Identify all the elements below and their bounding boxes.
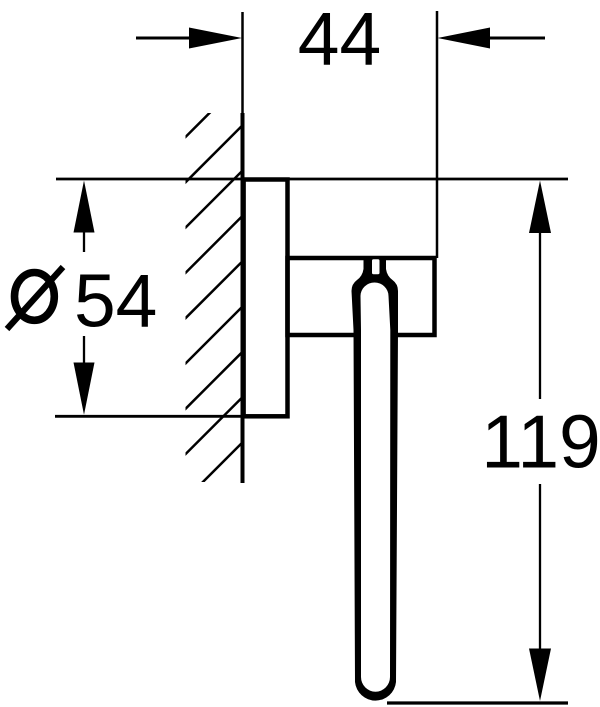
post slot (white gap in pivot) [372, 259, 380, 274]
dim 44 left leader line [136, 37, 195, 40]
dim 44 right arrowhead [438, 28, 491, 49]
ring and pivot post silhouette [352, 257, 399, 701]
dim 119 up arrowhead [529, 181, 551, 234]
dim 44 right leader line [484, 37, 545, 40]
dim 119 down arrowhead [529, 649, 551, 702]
wall hatching [161, 80, 243, 524]
dim 54 up arrowhead [74, 181, 95, 233]
wall surface line [241, 113, 245, 483]
ring inner opening [361, 283, 391, 692]
svg-text:44: 44 [298, 0, 381, 81]
extension line bottom of plate (dim 54 lower datum) [55, 415, 288, 418]
dim 119 dimension line lower segment [539, 484, 541, 649]
svg-text:54: 54 [74, 258, 157, 342]
dim 54 diameter symbol (drawn) [15, 273, 55, 321]
extension line at ring bottom (dim 119 lower datum) [387, 701, 568, 704]
dim 44 extension line (outer face side) [436, 11, 439, 258]
dim 44 extension line (wall side, thin upper part) [241, 12, 244, 113]
holder body (side view) [288, 258, 435, 335]
wall plate (escutcheon, side view) [244, 180, 288, 417]
extension line top (datum at plate top, shared by dim 54 and dim 119) [56, 178, 568, 181]
dim 54 down arrowhead [74, 363, 95, 415]
svg-text:119: 119 [481, 400, 600, 484]
dim 119 dimension line upper segment [539, 233, 541, 399]
dim 54 dimension line upper segment [83, 232, 85, 252]
dim 54 dimension line lower segment [83, 336, 85, 364]
dim 44 left arrowhead [189, 28, 242, 49]
